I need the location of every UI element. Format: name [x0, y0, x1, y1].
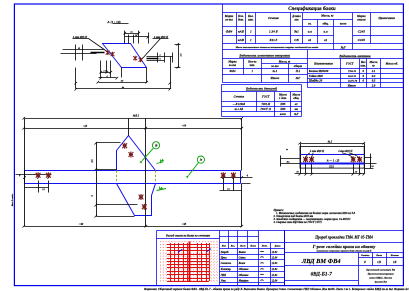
svg-text:эл-та: эл-та [270, 64, 279, 68]
svg-text:т.1 АБ: т.1 АБ [235, 108, 244, 111]
svg-text:мм: мм [293, 18, 298, 22]
svg-text:1б: 1б [155, 144, 158, 147]
svg-text:кг: кг [372, 63, 375, 67]
svg-text:ГОСТ: ГОСТ [345, 62, 354, 66]
svg-text:Шайбы 20: Шайбы 20 [308, 79, 323, 83]
svg-text:~45: ~45 [182, 223, 187, 226]
svg-text:ФБ4: ФБ4 [226, 30, 233, 34]
svg-text:2.5: 2.5 [91, 159, 94, 164]
svg-text:Обломов: Обломов [239, 274, 250, 277]
svg-text:1: 1 [250, 30, 252, 34]
svg-text:№док: №док [249, 245, 256, 248]
svg-text:А — 1 : 25: А — 1 : 25 [326, 160, 340, 163]
svg-text:№.1: №.1 [327, 140, 333, 143]
svg-text:8: 8 [362, 69, 364, 73]
svg-text:Инв. № подл.: Инв. № подл. [11, 193, 14, 207]
svg-text:1б: 1б [42, 188, 45, 191]
svg-text:Листов: Листов [390, 254, 400, 257]
svg-text:Дата: Дата [274, 246, 282, 248]
svg-text:Изм: Изм [221, 246, 227, 248]
svg-text:1б: 1б [371, 165, 374, 168]
svg-text:4 отв Ø23 П: 4 отв Ø23 П [309, 150, 325, 153]
svg-text:СВ: СВ [294, 38, 299, 42]
svg-text:общ.: общ. [322, 22, 328, 26]
svg-text:4 отв Ø23 П: 4 отв Ø23 П [72, 36, 88, 39]
svg-text:эл-та: эл-та [228, 63, 237, 67]
svg-text:12.04: 12.04 [272, 268, 279, 271]
svg-text:7798-70: 7798-70 [348, 70, 357, 73]
svg-text:шт.: шт. [360, 63, 366, 67]
svg-text:Белов: Белов [238, 262, 246, 265]
svg-text:Лист: Лист [375, 254, 382, 257]
svg-text:№Г: №Г [293, 113, 299, 116]
svg-text:2.5: 2.5 [180, 53, 183, 58]
svg-text:Примечание: Примечание [377, 16, 395, 20]
svg-text:Согласов.: Согласов. [221, 262, 232, 265]
svg-text:П.1: П.1 [295, 69, 301, 73]
svg-text:1: 1 [250, 38, 252, 42]
svg-text:Прораб прокладки ТМ4. МГ 05-Т: Прораб прокладки ТМ4. МГ 05-ТМ4 [314, 236, 373, 240]
svg-text:4: 4 [246, 174, 249, 177]
svg-text:отдел КМД г. Москва: отдел КМД г. Москва [369, 276, 393, 279]
svg-text:4 отв Ø23 П: 4 отв Ø23 П [153, 36, 169, 39]
svg-text:~40: ~40 [79, 223, 84, 226]
svg-text:Масса об.: Масса об. [385, 62, 399, 66]
svg-text:4. Сварные швы Кф=6мм по ГОСТ: 4. Сварные швы Кф=6мм по ГОСТ 14771 [273, 221, 323, 224]
svg-text:12.04: 12.04 [272, 256, 279, 259]
svg-text:нАБ: нАБ [238, 30, 244, 34]
svg-text:2.8: 2.8 [371, 84, 376, 88]
svg-text:а1: а1 [324, 38, 328, 42]
svg-text:ам: ам [295, 108, 298, 111]
svg-text:Утв.: Утв. [221, 279, 227, 282]
svg-text:бригада №4: бригада №4 [375, 280, 388, 283]
svg-text:А (1 : 10): А (1 : 10) [106, 20, 120, 24]
svg-text:ГИП: ГИП [220, 274, 228, 277]
svg-text:Ведомость метизов: Ведомость метизов [338, 54, 371, 58]
svg-text:Подп.: Подп. [261, 245, 268, 248]
svg-text:Ведомость элементов отправки: Ведомость элементов отправки [238, 53, 290, 57]
svg-text:Обломов: Обломов [239, 268, 250, 271]
svg-text:шт.: шт. [250, 63, 256, 67]
svg-text:стали: стали [357, 18, 366, 22]
svg-text:нАВ: нАВ [238, 38, 245, 42]
svg-text:8: 8 [362, 79, 364, 83]
svg-text:Разраб.: Разраб. [221, 251, 230, 254]
svg-text:дет.: дет. [238, 18, 244, 22]
svg-text:1П: 1П [377, 260, 382, 264]
svg-text:Б11.5: Б11.5 [269, 38, 278, 42]
svg-text:эл-та: эл-та [224, 18, 233, 22]
svg-text:П05: П05 [279, 103, 286, 106]
svg-text:Масса, кг: Масса, кг [320, 14, 334, 18]
svg-text:Р: Р [364, 260, 366, 264]
svg-text:Промстальконструкция: Промстальконструкция [367, 272, 395, 275]
svg-text:6ВД-Б1-7: 6ВД-Б1-7 [311, 271, 333, 277]
svg-text:Быков: Быков [238, 251, 247, 254]
svg-text:С245: С245 [358, 30, 365, 34]
svg-text:8: 8 [362, 74, 364, 78]
svg-text:12.04: 12.04 [272, 262, 279, 265]
svg-text:ЛВД ВМ ФВ4: ЛВД ВМ ФВ4 [301, 258, 341, 265]
svg-text:Сокол: Сокол [239, 256, 246, 259]
svg-text:Ведомость деталей: Ведомость деталей [245, 85, 277, 90]
svg-text:Сечение: Сечение [268, 16, 280, 20]
svg-text:Проектный институт №2: Проектный институт №2 [365, 268, 396, 271]
svg-text:1111: 1111 [329, 166, 334, 169]
svg-text:всего: всего [340, 22, 347, 26]
svg-text:С245: С245 [358, 38, 365, 42]
svg-text:общая: общая [294, 64, 303, 68]
svg-text:4т: 4т [285, 160, 289, 163]
svg-text:Кол.: Кол. [230, 246, 236, 248]
svg-text:Ø: Ø [77, 48, 80, 50]
svg-text:Макаров: Макаров [238, 279, 250, 282]
svg-text:т.1: т.1 [273, 69, 278, 73]
svg-text:Г-реж склейки крана на обвязку: Г-реж склейки крана на обвязку [312, 244, 376, 249]
svg-text:12.04: 12.04 [272, 279, 279, 282]
svg-text:Итого: Итого [270, 76, 280, 80]
svg-text:всего: всего [280, 113, 287, 116]
svg-text:Пров.: Пров. [220, 256, 228, 259]
svg-text:а.а: а.а [324, 30, 328, 34]
svg-text:№Г: №Г [295, 76, 301, 80]
svg-text:Стадия: Стадия [361, 254, 370, 257]
svg-text:общ.: общ. [293, 96, 299, 100]
svg-text:Итого: Итого [347, 84, 357, 88]
svg-text:шт.: шт. [248, 18, 254, 22]
svg-text:П05: П05 [279, 108, 286, 111]
svg-text:4 отв Ø23 П: 4 отв Ø23 П [337, 150, 353, 153]
svg-text:1Б: 1Б [393, 260, 397, 264]
svg-text:эл.: эл. [307, 22, 312, 26]
svg-text:а.а: а.а [308, 30, 312, 34]
svg-text:Н.контр.: Н.контр. [220, 268, 232, 271]
svg-text:0.3: 0.3 [372, 79, 376, 83]
svg-text:Болты М20х60: Болты М20х60 [308, 69, 329, 73]
svg-text:№1: №1 [293, 30, 299, 34]
svg-text:а1: а1 [308, 38, 312, 42]
svg-text:12.04: 12.04 [272, 251, 279, 254]
svg-text:№Б.1: №Б.1 [132, 115, 140, 118]
svg-text:Лист: Лист [239, 246, 246, 248]
svg-text:ГОСТ: ГОСТ [261, 95, 270, 99]
svg-text:11371-78: 11371-78 [348, 80, 358, 83]
svg-text:1: 1 [252, 69, 254, 73]
svg-text:Наименование: Наименование [313, 62, 334, 66]
svg-text:4б: 4б [120, 80, 124, 83]
svg-text:~15: ~15 [83, 125, 88, 128]
svg-text:12.04: 12.04 [272, 274, 279, 277]
svg-text:№Г: №Г [340, 45, 346, 49]
svg-text:ГОСТ 11: ГОСТ 11 [260, 108, 272, 111]
svg-text:техническое содержание чертежа: техническое содержание чертежа балки обв… [317, 249, 372, 252]
svg-text:Масса, т: Масса, т [278, 59, 291, 63]
svg-text:0.4: 0.4 [372, 74, 376, 78]
svg-text:т: т [286, 148, 288, 151]
svg-text:ФБ4: ФБ4 [230, 69, 236, 73]
svg-text:7401-П: 7401-П [261, 103, 271, 106]
svg-text:Спецификация балки: Спецификация балки [288, 7, 336, 12]
svg-text:Расход стали на балку по сечен: Расход стали на балку по сечениям [166, 234, 210, 237]
svg-text:—Б 120х8: —Б 120х8 [232, 103, 246, 106]
svg-text:Сечение: Сечение [234, 95, 245, 99]
svg-text:Гайки М20: Гайки М20 [308, 74, 324, 78]
svg-text:а1: а1 [295, 103, 298, 106]
svg-text:1 дет.: 1 дет. [279, 96, 287, 100]
svg-text:1.34 Б: 1.34 Б [269, 30, 278, 34]
svg-text:Масса наплавленного металла мо: Масса наплавленного металла монтажных св… [235, 46, 320, 49]
svg-text:2.1: 2.1 [371, 69, 376, 73]
svg-text:~14: ~14 [182, 124, 187, 127]
svg-text:5915-70: 5915-70 [348, 75, 357, 78]
svg-text:4: 4 [91, 195, 94, 198]
svg-text:1а: 1а [200, 159, 203, 162]
